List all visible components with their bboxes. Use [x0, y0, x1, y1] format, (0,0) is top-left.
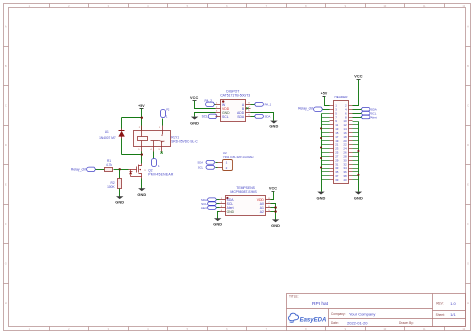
- wire VDD pin to VCC: [271, 192, 274, 200]
- junction left bus: [320, 137, 322, 139]
- svg-text:D: D: [467, 143, 469, 147]
- wire SDA pin: [217, 199, 220, 201]
- svg-text:GND: GND: [115, 199, 124, 204]
- svg-text:Alert: Alert: [201, 206, 207, 210]
- svg-text:H: H: [467, 301, 469, 305]
- net flag SCL (header pin6): [361, 111, 377, 115]
- wire ADD pin to ground: [251, 113, 274, 121]
- svg-text:Y391 0.81-32P-14-00AH: Y391 0.81-32P-14-00AH: [223, 155, 254, 159]
- svg-text:TITLE:: TITLE:: [289, 295, 299, 299]
- svg-text:2022-01-20: 2022-01-20: [347, 320, 368, 325]
- wire tempsens GND pin to ground: [218, 212, 220, 219]
- wire pin 8 to Alert: [353, 117, 362, 119]
- wire Relay_ctrl to pin 3: [323, 109, 330, 111]
- svg-text:GND: GND: [227, 210, 235, 214]
- ground (A pins): [271, 219, 280, 227]
- designator R2: [111, 181, 115, 185]
- net flag PA_1 (terminal A): [254, 102, 271, 106]
- IC DIGPOT CAT5171TB-50GT3: [216, 100, 251, 122]
- svg-text:100K: 100K: [107, 185, 115, 189]
- value MCP9808T-E/MS: [230, 190, 257, 194]
- value SRD-05VDC-SL-C: [171, 140, 198, 144]
- svg-text:SDA: SDA: [237, 115, 245, 119]
- no-connect relay NO pin: [160, 152, 162, 154]
- net flag SCL (tempsens): [201, 202, 216, 206]
- svg-text:E: E: [5, 183, 7, 187]
- svg-text:GND: GND: [269, 124, 278, 129]
- junction left bus: [320, 167, 322, 169]
- wire right ground bus: [353, 122, 359, 192]
- svg-text:A2: A2: [260, 210, 264, 214]
- Q2 pin number 3: [144, 170, 146, 172]
- svg-text:SRD-05VDC-SL-C: SRD-05VDC-SL-C: [171, 140, 198, 144]
- svg-text:PA_1: PA_1: [265, 103, 272, 107]
- svg-text:GND: GND: [213, 222, 222, 227]
- svg-text:Relay_ctrl: Relay_ctrl: [298, 107, 313, 111]
- power flag VCC (tempsens): [269, 186, 277, 191]
- net flag Relay_ctrl (header pin3): [298, 107, 322, 112]
- power flag VCC (header pin2): [354, 74, 362, 79]
- svg-text:1N4007 M7: 1N4007 M7: [99, 136, 116, 140]
- wire PA_2 to W pin: [215, 104, 216, 106]
- svg-text:SCL: SCL: [198, 166, 204, 170]
- svg-text:SDA: SDA: [197, 161, 203, 165]
- svg-text:VCC: VCC: [354, 74, 362, 78]
- junction right bus: [357, 150, 359, 152]
- connector P2 (relay NC terminal): [161, 108, 170, 119]
- wire +5V to coil/diode node: [122, 109, 142, 131]
- ground (header left): [317, 192, 326, 201]
- svg-text:HEADER: HEADER: [335, 95, 349, 99]
- svg-text:D: D: [5, 143, 7, 147]
- wire relay coil bottom to Q2 drain: [141, 152, 143, 164]
- svg-text:CAT5171TB-50GT3: CAT5171TB-50GT3: [220, 93, 250, 97]
- svg-text:Sheet:: Sheet:: [436, 313, 445, 317]
- svg-text:VCC: VCC: [269, 186, 277, 190]
- junction +5V node: [141, 117, 143, 119]
- svg-text:1.0: 1.0: [450, 301, 456, 306]
- net flag SDA (digpot): [254, 114, 270, 118]
- relay pin number 1: [159, 127, 161, 129]
- IC TEMPSENS MCP9808T-E/MS: [220, 196, 271, 216]
- svg-text:A: A: [467, 25, 469, 29]
- net flag PA_2 (wiper): [205, 99, 215, 107]
- relay pin number 3: [158, 149, 160, 151]
- net flag SDA (tempsens): [201, 198, 217, 202]
- wire GND pin to ground: [195, 113, 216, 117]
- wire VCC to pin 2: [353, 80, 359, 106]
- ground (digpot): [190, 117, 199, 126]
- relay pin number 5: [138, 149, 140, 151]
- power flag VCC (digpot): [190, 96, 198, 101]
- designator HEADER: [335, 95, 349, 99]
- net flag Relay_ctrl (gate input): [71, 167, 96, 172]
- svg-text:G: G: [5, 262, 7, 266]
- wire gate node to R2: [119, 170, 121, 179]
- svg-text:GND: GND: [137, 192, 146, 197]
- wire left ground bus: [322, 114, 330, 192]
- value 100K: [107, 185, 115, 189]
- svg-text:1/1: 1/1: [450, 312, 456, 317]
- EasyEDA logo: [289, 313, 327, 323]
- svg-text:E: E: [467, 183, 469, 187]
- svg-text:SCL: SCL: [202, 115, 208, 119]
- svg-text:Company:: Company:: [331, 312, 346, 316]
- connector P3 (relay common terminal): [152, 159, 161, 169]
- svg-text:Drawn By:: Drawn By:: [399, 321, 414, 325]
- svg-text:U1: U1: [105, 130, 109, 134]
- wire P2 to relay NC pin: [162, 119, 164, 126]
- designator RLY1: [171, 136, 179, 140]
- junction right bus: [357, 174, 359, 176]
- junction A2: [274, 210, 276, 212]
- wire A pin to PA_1: [251, 104, 255, 106]
- net flag SCL (digpot): [202, 114, 218, 119]
- svg-text:EasyEDA: EasyEDA: [300, 318, 327, 324]
- ground (ADD pin): [269, 121, 278, 129]
- designator TEMPSENS: [236, 186, 255, 190]
- power flag +5V (header pin1): [321, 91, 328, 96]
- wire pin 4 to SDA: [353, 109, 362, 111]
- junction left bus: [320, 157, 322, 159]
- svg-text:SDA: SDA: [265, 115, 271, 119]
- value PMV45ENEAR: [148, 173, 174, 177]
- relay pin number 2: [139, 127, 141, 129]
- wire U2 pin2: [216, 167, 218, 169]
- transistor Q2 PMV45ENEAR (NMOS): [129, 164, 142, 179]
- designator DIGPOT: [226, 89, 239, 93]
- ground (Q2 source): [137, 188, 146, 197]
- power flag +5V (relay coil supply): [138, 104, 145, 108]
- wire +5V to pin 1: [325, 97, 330, 106]
- value 4.7k: [106, 163, 112, 167]
- svg-text:+5V: +5V: [138, 104, 145, 108]
- wire diode anode return to drain node: [122, 154, 142, 156]
- wire R2 to ground: [119, 189, 121, 197]
- svg-text:Your Company: Your Company: [349, 311, 375, 316]
- designator U1: [105, 130, 109, 134]
- ground (tempsens GND): [213, 218, 222, 226]
- svg-text:C: C: [467, 104, 469, 108]
- svg-text:GND: GND: [354, 195, 363, 200]
- svg-text:40: 40: [343, 178, 347, 182]
- wire A0 A1 A2 to ground: [271, 204, 276, 220]
- svg-text:Alert: Alert: [371, 115, 377, 119]
- net flag SDA (header pin4): [361, 107, 377, 111]
- wire U2 pin1: [216, 162, 218, 164]
- svg-text:GND: GND: [317, 195, 326, 200]
- relay pin number 4: [150, 149, 152, 151]
- svg-text:GND: GND: [190, 121, 199, 126]
- svg-text:P2: P2: [166, 108, 170, 112]
- wire Alert pin: [217, 207, 220, 209]
- net flag Alert (header pin8): [361, 115, 377, 119]
- wire flag to R1: [96, 169, 105, 171]
- wire SDA pin to flag: [251, 116, 255, 118]
- value 1N4007 M7: [99, 136, 116, 140]
- svg-text:VCC: VCC: [190, 96, 198, 100]
- value CAT5171TB-50GT3: [220, 93, 250, 97]
- resistor R2: [118, 179, 122, 189]
- svg-text:GND: GND: [271, 223, 280, 228]
- svg-text:B: B: [5, 64, 7, 68]
- wire R1 to gate node: [114, 169, 129, 171]
- designator U2: [223, 151, 227, 155]
- designator R1: [107, 159, 111, 163]
- svg-text:B: B: [467, 64, 469, 68]
- junction gate/R2 node: [119, 168, 121, 170]
- svg-text:SCL: SCL: [222, 115, 229, 119]
- connector U2 Y391 0.81-32P-14-00AH: [218, 160, 233, 171]
- svg-text:Relay_ctrl: Relay_ctrl: [71, 168, 86, 172]
- value Y391 0.81-32P-14-00AH: [223, 155, 254, 159]
- ground (R2): [115, 196, 124, 204]
- wire pin 6 to SCL: [353, 113, 362, 115]
- net flag SCL (U2): [198, 165, 215, 169]
- svg-text:+5V: +5V: [321, 91, 328, 95]
- connector HEADER 2x20: [330, 101, 353, 184]
- wire VCC to VDD pin: [195, 101, 216, 109]
- net flag Alert (tempsens): [201, 206, 217, 210]
- svg-text:G: G: [467, 262, 469, 266]
- svg-text:MCP9808T-E/MS: MCP9808T-E/MS: [230, 190, 257, 194]
- wire relay common to P3: [153, 152, 155, 159]
- svg-text:4.7k: 4.7k: [106, 163, 112, 167]
- junction left bus: [320, 147, 322, 149]
- svg-text:C: C: [5, 104, 7, 108]
- wire Q2 source to ground: [141, 179, 143, 189]
- svg-text:39: 39: [335, 178, 339, 182]
- svg-text:Date:: Date:: [331, 321, 339, 325]
- svg-text:A: A: [5, 25, 7, 29]
- title block: [287, 294, 466, 327]
- svg-text:PMV45ENEAR: PMV45ENEAR: [148, 173, 174, 177]
- designator Q2: [148, 169, 152, 173]
- ground (header right): [354, 192, 363, 201]
- svg-text:RPI hat: RPI hat: [312, 301, 329, 307]
- junction left bus: [320, 127, 322, 129]
- svg-text:REV:: REV:: [436, 301, 443, 305]
- junction A1: [274, 206, 276, 208]
- svg-text:H: H: [5, 301, 7, 305]
- net flag SDA (U2): [197, 160, 215, 164]
- wire SCL pin: [217, 203, 220, 205]
- no-connect pin B: [246, 107, 248, 109]
- junction drain/diode node: [141, 153, 143, 155]
- resistor R1: [105, 168, 113, 172]
- diode U1 1N4007 M7 (flyback): [118, 118, 124, 155]
- relay RLY1 SRD-05VDC-SL-C: [134, 126, 171, 152]
